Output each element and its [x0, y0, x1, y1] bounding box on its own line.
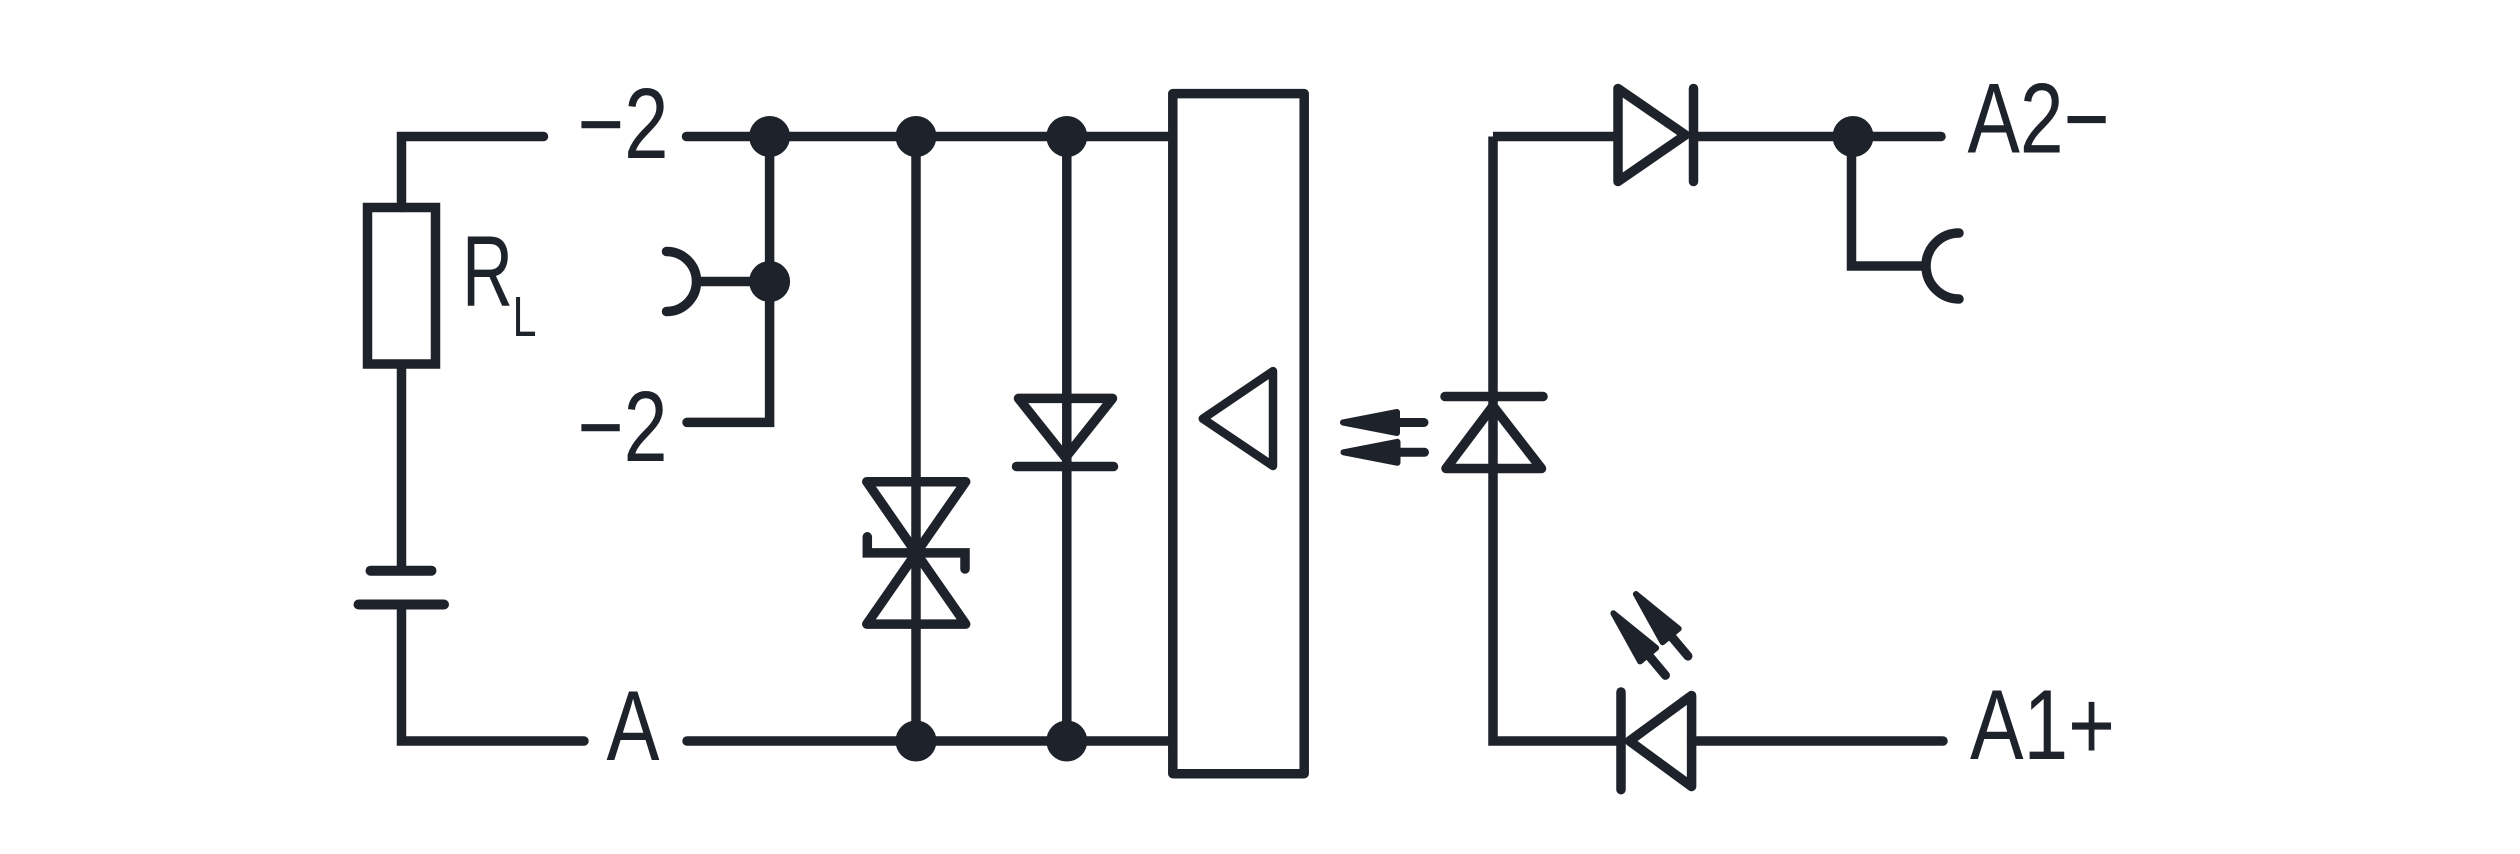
svg-text:A1+: A1+ — [1970, 669, 2115, 780]
svg-text:R: R — [462, 216, 513, 328]
svg-text:−2: −2 — [578, 68, 669, 180]
svg-text:A2−: A2− — [1968, 63, 2110, 174]
svg-text:A: A — [607, 670, 660, 781]
svg-text:−2: −2 — [578, 371, 668, 483]
svg-text:L: L — [513, 285, 537, 349]
